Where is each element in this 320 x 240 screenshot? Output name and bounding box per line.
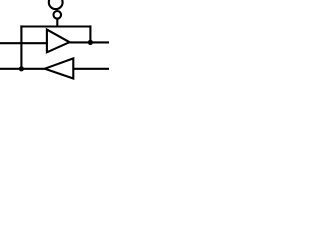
background bbox=[0, 0, 109, 85]
wire: bottom left segment bbox=[0, 68, 45, 70]
junction dot right bbox=[88, 40, 93, 45]
wire: right vertical bbox=[89, 25, 91, 42]
junction dot left bbox=[19, 66, 24, 71]
wire: enable stub down to top rail bbox=[56, 19, 58, 26]
wire: buffer output to right bbox=[70, 41, 110, 43]
wire: top rail bbox=[20, 25, 91, 27]
wire: left input to buffer bbox=[0, 42, 47, 44]
wire: bottom right segment bbox=[73, 68, 109, 70]
buffer U1 (right-pointing triangle) bbox=[47, 30, 70, 53]
wire: left vertical bus bbox=[20, 25, 22, 68]
buffer U2 (left-pointing triangle) bbox=[45, 58, 74, 78]
inverting bubble on enable line bbox=[53, 11, 61, 19]
enable terminal circle T1 (open circle, clipped at top edge) bbox=[49, 0, 63, 9]
